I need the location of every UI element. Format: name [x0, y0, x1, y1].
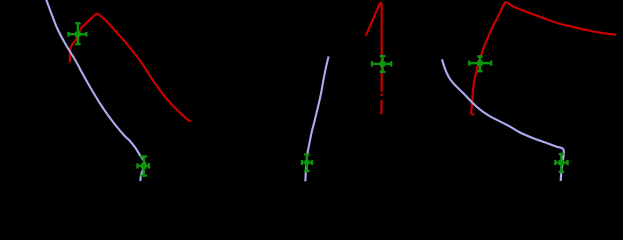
lavender curve panel 2	[305, 57, 328, 182]
data point P4 (panel 2 on red line)	[372, 56, 391, 72]
data point P1 (panel 1 upper)	[68, 23, 86, 44]
data point P3 (panel 2 lower left)	[302, 154, 312, 171]
red curve panel 2	[366, 3, 382, 92]
data point P6 (panel 3 lower)	[555, 154, 567, 172]
red curve panel 2 dash	[381, 94, 383, 97]
red curve panel 2 lower segment	[380, 100, 383, 114]
lavender curve panel 1	[46, 0, 145, 181]
data point P2 (panel 1 lower)	[137, 157, 149, 176]
lavender curve panel 3	[442, 59, 564, 181]
data point P5 (panel 3 upper)	[469, 56, 491, 71]
red curve panel 3	[471, 2, 616, 114]
red curve panel 1	[68, 14, 190, 122]
